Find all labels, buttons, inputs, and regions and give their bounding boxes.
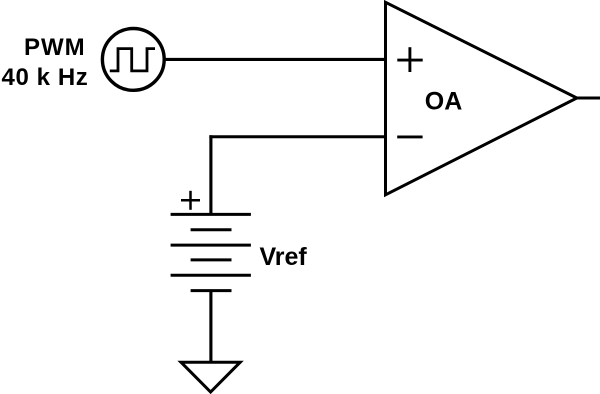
wire: battery - terminal to ground bbox=[209, 291, 212, 363]
svg-text:PWM: PWM bbox=[24, 34, 86, 61]
ground bbox=[181, 362, 240, 392]
svg-text:40 k Hz: 40 k Hz bbox=[2, 64, 89, 91]
op-amp U1 bbox=[386, 2, 577, 195]
wire: vertical segment down to battery + terminal bbox=[209, 135, 212, 215]
op-amp inverting (&#8722;) input marker bbox=[397, 135, 422, 138]
svg-text:Vref: Vref bbox=[260, 243, 308, 271]
wire: inverting input horizontal segment bbox=[209, 135, 387, 138]
battery positive polarity marker (+) bbox=[181, 191, 200, 210]
voltage source V1 (PWM square-wave source) bbox=[102, 29, 164, 91]
svg-text:OA: OA bbox=[425, 87, 463, 115]
op-amp non-inverting (+) input marker bbox=[397, 47, 422, 72]
wire: op-amp output bbox=[575, 96, 600, 99]
wire: source output to op-amp non-inverting input bbox=[166, 58, 388, 61]
battery V2 (Vref) bbox=[171, 214, 251, 290]
